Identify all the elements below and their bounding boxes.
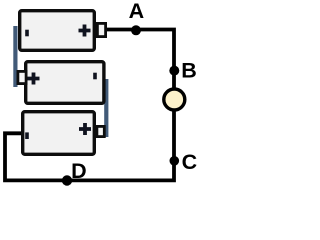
svg-text:D: D xyxy=(71,159,87,183)
svg-text:A: A xyxy=(129,0,145,23)
svg-text:B: B xyxy=(181,59,197,83)
svg-text:C: C xyxy=(182,150,198,174)
